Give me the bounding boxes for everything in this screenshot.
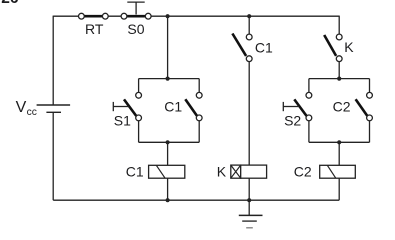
label Vcc — [16, 99, 37, 118]
contact C2 (relay contact, right block) — [356, 92, 373, 120]
svg-text:C2: C2 — [294, 163, 312, 179]
wire: right block bottom rail — [309, 141, 370, 143]
ground — [239, 200, 263, 228]
node: junction coil K / ground / bottom rail — [247, 198, 251, 202]
wire: coil C1 to bottom rail — [167, 178, 169, 200]
wire: bottom rail — [53, 199, 339, 201]
switch S1 (pushbutton NO contact) — [113, 92, 141, 120]
wire: S2 branch upper stub — [308, 79, 310, 93]
switch C1 (NO contact in middle branch) — [232, 34, 252, 62]
wire: top rail from Vcc+ corner to top-right corner — [53, 15, 339, 17]
wire: C1 contact branch upper stub — [198, 79, 200, 93]
switch S2 (pushbutton NO contact) — [283, 92, 312, 120]
wire: right drop from top rail to K switch — [338, 16, 340, 34]
node: junction right block top — [337, 77, 341, 81]
wire: C1 contact branch lower stub — [198, 121, 200, 143]
wire: S1 branch upper stub — [138, 79, 140, 93]
node: junction right block bottom — [337, 140, 341, 144]
wire: C2 contact branch upper stub — [369, 79, 371, 93]
wire: left rail (Vcc positive side) — [52, 16, 54, 105]
contact C1 (relay contact, left block) — [185, 92, 202, 120]
node: junction top rail to left contact block — [166, 14, 170, 18]
node: junction coil C1 / bottom rail — [166, 198, 170, 202]
svg-text:K: K — [217, 163, 227, 179]
relay coil C2 — [320, 165, 356, 178]
wire: coil K to bottom rail — [248, 178, 250, 200]
wire: left rail (Vcc negative side down to bottom rail) — [52, 112, 54, 200]
wire: left block to coil C1 — [167, 142, 169, 165]
svg-text:K: K — [344, 39, 354, 55]
wire: feed from top rail to left block — [167, 16, 169, 78]
svg-text:C1: C1 — [255, 39, 273, 55]
wire: S1 branch lower stub — [138, 121, 140, 143]
wire: left block bottom rail — [139, 141, 200, 143]
wire: top rail to C1 switch — [248, 16, 250, 34]
node: junction left block bottom — [166, 140, 170, 144]
svg-text:C2: C2 — [333, 99, 351, 115]
switch K (NO contact top right) — [324, 34, 342, 62]
node: junction left block top — [166, 77, 170, 81]
relay coil K (with X box) — [231, 165, 267, 178]
wire: C2 contact branch lower stub — [369, 121, 371, 143]
svg-text:S1: S1 — [114, 113, 131, 129]
switch S0 (pushbutton, closed contact with plunger) — [121, 2, 151, 19]
wire: K switch down to right block top rail — [338, 61, 340, 78]
switch RT (closed contact) — [79, 13, 109, 19]
wire: left block top rail — [139, 78, 200, 80]
svg-text:cc: cc — [27, 107, 37, 118]
wire: coil C2 to bottom rail corner — [338, 178, 340, 200]
relay coil C1 — [149, 165, 185, 178]
node: junction top rail to C1 switch branch — [247, 14, 251, 18]
battery Vcc — [37, 105, 71, 112]
svg-text:C1: C1 — [126, 163, 144, 179]
wire: right block top rail — [309, 78, 370, 80]
svg-text:RT: RT — [85, 21, 104, 37]
svg-text:V: V — [16, 99, 27, 116]
wire: S2 branch lower stub — [308, 121, 310, 143]
wire: C1 switch down to relay coil K — [248, 61, 250, 165]
wire: right block to coil C2 — [338, 142, 340, 165]
svg-text:S0: S0 — [127, 21, 144, 37]
svg-text:C1: C1 — [164, 99, 182, 115]
svg-text:S2: S2 — [284, 113, 301, 129]
svg-text:26: 26 — [1, 0, 19, 7]
